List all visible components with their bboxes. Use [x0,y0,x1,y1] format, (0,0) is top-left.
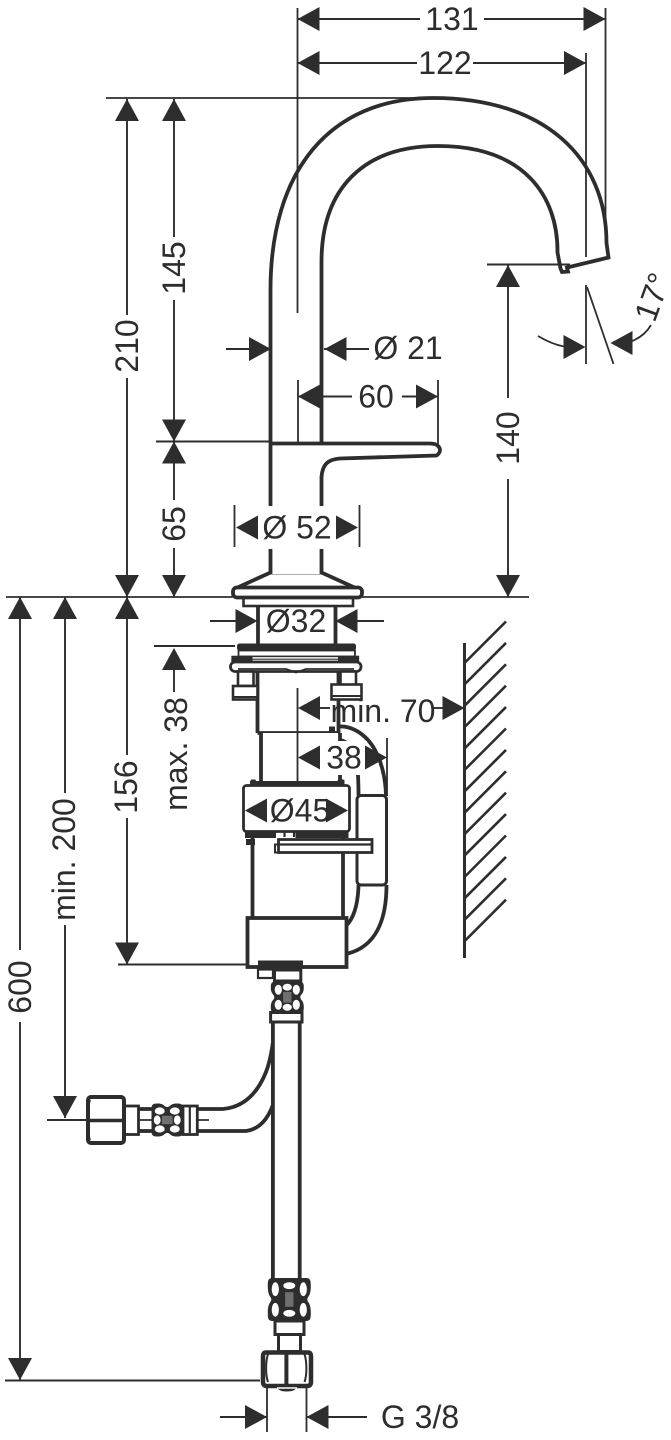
dim max38 [154,646,235,811]
flexible hose upper loop (body to connector block) [333,726,386,795]
dim 210 vertical [109,99,145,597]
dim O32 [210,603,384,639]
spout base cone [233,573,362,598]
vertical hose upper bellows / stem below body [275,970,301,981]
svg-text:131: 131 [425,1,478,37]
dim G3/8 [220,1387,459,1435]
left union nut [88,1097,124,1143]
svg-text:Ø32: Ø32 [266,603,326,639]
body bottom block [248,918,347,967]
left hose stub lines [137,1107,153,1111]
left collar [124,1106,139,1135]
dim 145 vertical [156,99,270,442]
dim min200 vertical [46,597,87,1120]
svg-text:max. 38: max. 38 [158,697,194,811]
svg-text:17°: 17° [627,268,671,326]
lower stem tube [279,1335,301,1352]
dim 600 vertical [2,597,260,1381]
body mid section [261,733,340,785]
O32 shaft below cone [258,601,336,646]
vertical hose lower bellows [268,1278,311,1321]
mounting nut O45 [244,780,350,839]
vertical supply hose (white filled, hides loop crossing) [273,1020,300,1280]
svg-text:122: 122 [418,45,471,81]
svg-text:min. 200: min. 200 [46,798,82,921]
dim min70 [298,693,465,729]
body lower section [253,838,344,918]
left bellows end ring [183,1106,197,1135]
dim 38 [298,738,387,796]
wall section (hatched) [465,622,507,959]
dim 156 vertical [108,597,247,965]
svg-text:600: 600 [2,960,38,1013]
dim 140 vertical [487,265,570,598]
left hose bellows [152,1104,184,1137]
drain rod bracket [246,832,372,853]
body joint line [258,731,339,735]
svg-text:60: 60 [358,379,394,415]
dim 65 vertical [156,442,192,598]
faucet body: upper tube below escutcheon [258,671,339,733]
dim O45 [245,793,348,829]
spout outline [271,98,609,574]
top reference tick [106,97,420,99]
counter reference line [6,596,233,598]
svg-text:38: 38 [326,740,362,776]
svg-text:min. 70: min. 70 [331,693,436,729]
svg-text:210: 210 [109,319,145,372]
svg-text:140: 140 [490,411,526,464]
escutcheon flange stack [231,644,362,700]
G3/8 hex nut [263,1353,311,1392]
svg-text:Ø45: Ø45 [270,793,330,829]
lower collar [275,1321,304,1335]
dim O52 [235,505,360,549]
svg-text:Ø 21: Ø 21 [373,330,442,366]
dim O21 [226,330,443,366]
dim 122 horizontal [298,45,587,364]
connector block on looped hose [357,796,387,886]
handle lever [322,445,441,477]
vertical hose upper collar [271,1013,302,1023]
column right edge below handle [320,476,324,574]
drain slot notch [258,970,273,979]
svg-text:156: 156 [108,760,144,813]
spout and column (fill) [271,98,609,574]
angle 17deg annotation [538,268,671,364]
svg-text:145: 145 [156,241,192,294]
left supply hose centerline [122,1119,209,1121]
centerline below O32 [297,688,299,782]
left hose rising behind vertical hose [194,1012,286,1131]
hose stub nub at body edge [329,727,335,741]
dim 60 [298,379,438,445]
svg-text:G 3/8: G 3/8 [381,1399,459,1435]
svg-text:Ø 52: Ø 52 [262,510,331,546]
hose bend from connector block into body [346,885,387,954]
svg-text:65: 65 [156,506,192,542]
dim 131 horizontal [298,1,606,313]
base ring lip [244,598,354,607]
